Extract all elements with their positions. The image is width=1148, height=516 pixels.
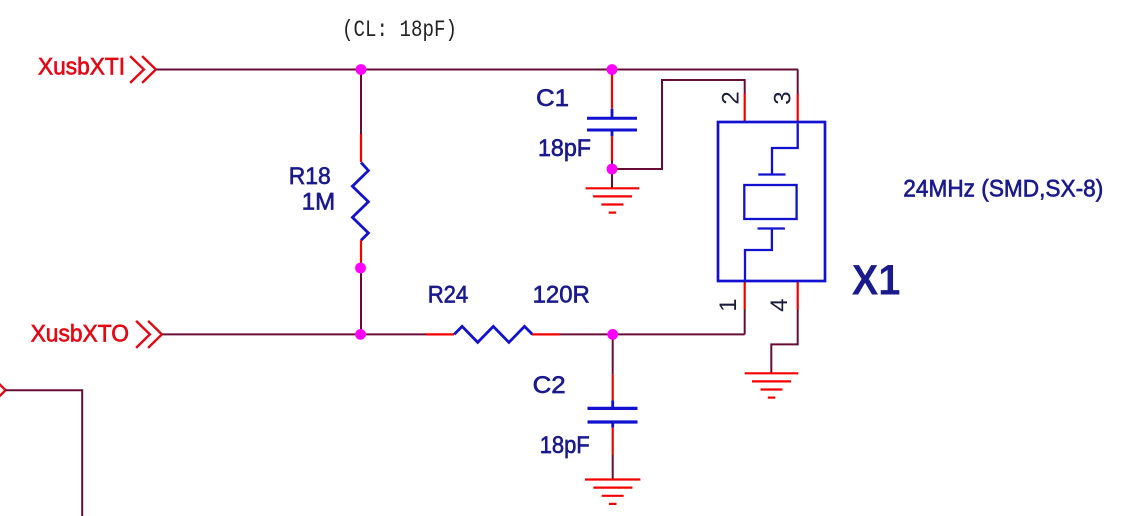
svg-text:120R: 120R — [533, 282, 590, 309]
port chevron tip (bottom left, clipped) — [0, 377, 6, 404]
resistor R24 — [426, 326, 560, 342]
ground (C1) — [586, 188, 640, 212]
capacitor C2 — [588, 334, 638, 455]
ground (C2) — [585, 480, 640, 504]
svg-text:1: 1 — [715, 298, 742, 311]
port chevrons XusbXTI — [130, 56, 156, 83]
svg-text:18pF: 18pF — [540, 432, 590, 459]
node junction C1 bottom — [607, 164, 618, 175]
node junction XTO/C2 — [607, 329, 618, 340]
wire C1 node to ground — [611, 160, 613, 188]
wire pin 4 to ground — [771, 309, 797, 373]
svg-text:R24: R24 — [428, 282, 469, 309]
svg-text:R18: R18 — [289, 163, 331, 190]
wire to pin 1 — [744, 309, 746, 334]
node junction XTI/C1 — [607, 64, 618, 75]
wire to pin 3 vertical — [797, 70, 799, 96]
wire XTI to R18 top — [360, 70, 362, 136]
resistor R18 — [352, 134, 368, 263]
wire XTO horizontal right — [560, 333, 745, 335]
ground (X1 pin 4) — [745, 373, 799, 397]
svg-text:24MHz (SMD,SX-8): 24MHz (SMD,SX-8) — [903, 176, 1103, 203]
svg-text:3: 3 — [769, 91, 796, 104]
wire XTI horizontal — [156, 69, 798, 71]
svg-text:2: 2 — [718, 91, 745, 104]
svg-text:XusbXTI: XusbXTI — [38, 54, 125, 81]
node junction XTO/R18 — [355, 329, 366, 340]
svg-text:18pF: 18pF — [538, 135, 591, 162]
svg-text:(CL: 18pF): (CL: 18pF) — [342, 17, 457, 43]
capacitor C1 — [587, 70, 637, 161]
node junction R18 bottom — [355, 263, 366, 274]
svg-text:1M: 1M — [302, 189, 335, 216]
wire C1 bottom node to pin 2 — [612, 80, 745, 169]
wire XTO horizontal left — [162, 333, 427, 335]
wire R18 bottom to XTO — [360, 266, 362, 334]
svg-text:C2: C2 — [533, 372, 566, 399]
svg-text:XusbXTO: XusbXTO — [31, 320, 129, 347]
svg-text:C1: C1 — [536, 85, 569, 112]
svg-text:4: 4 — [766, 298, 793, 311]
node junction XTI/R18 — [356, 64, 367, 75]
wire bottom-left net — [6, 390, 83, 516]
port chevrons XusbXTO — [136, 321, 162, 348]
wire C2 to ground — [612, 455, 614, 480]
crystal X1 — [718, 94, 825, 310]
svg-text:X1: X1 — [852, 256, 901, 304]
